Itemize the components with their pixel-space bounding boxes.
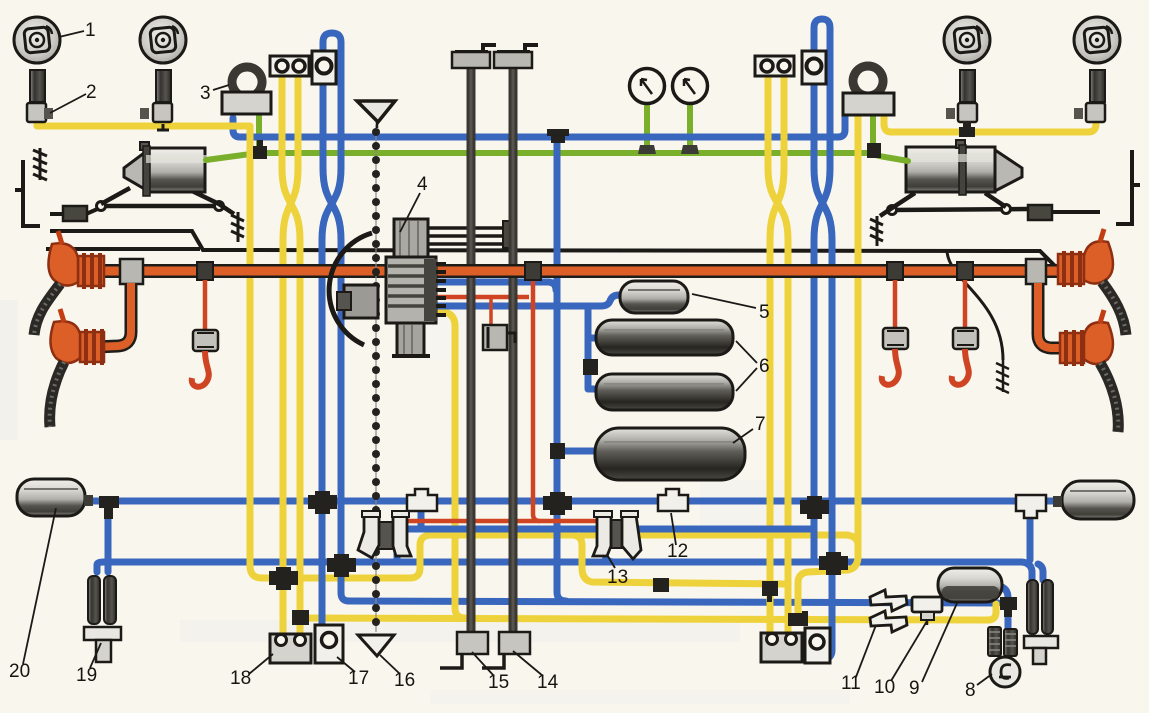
rod to shut-off valve 15 — [467, 58, 476, 634]
reservoir 6 lower — [596, 374, 733, 410]
red drop with hook left (trailer control hose) — [192, 280, 218, 387]
pointer 2 — [50, 94, 86, 113]
svg-text:16: 16 — [394, 670, 415, 691]
red drop with hook right 2 — [952, 280, 978, 385]
svg-text:14: 14 — [537, 672, 559, 693]
pipe yellow loop around regulator 13 — [582, 532, 848, 539]
pipe blue reservoir9 elbow and drop to coupling 8 — [999, 586, 1008, 629]
svg-text:10: 10 — [874, 677, 895, 698]
reservoir 20 left — [17, 479, 85, 516]
flag fitting top of rod 14 — [497, 45, 538, 52]
compressor right mounting bar — [880, 193, 1028, 216]
svg-text:11: 11 — [841, 673, 861, 694]
pipe blue bottom service line y601 — [349, 601, 998, 603]
pointer 17 — [337, 657, 355, 672]
reservoir 20 right — [1062, 481, 1134, 519]
pipe blue relay valve A stub — [418, 511, 425, 527]
pipe blue right block drop to switch 17r — [814, 83, 832, 659]
reservoir 9 — [938, 568, 1002, 602]
brake force regulator 13 — [593, 511, 641, 559]
pointer 6 — [736, 341, 757, 391]
pipe blue hand-valve crossover (dashed look) — [233, 116, 845, 137]
pipe blue inverted-U right — [814, 19, 830, 560]
collar black on res6 feed — [583, 359, 598, 375]
coupling head assembly upper right — [1026, 229, 1126, 335]
tee black on blue at 1008/604 — [1000, 597, 1017, 617]
pointer 9 — [922, 601, 958, 682]
hatch ground right compressor — [870, 216, 883, 246]
svg-text:13: 13 — [607, 567, 628, 588]
svg-text:9: 9 — [909, 678, 920, 699]
pointer 12 — [671, 513, 676, 545]
air dryer / compressor right — [906, 140, 1022, 195]
pipe blue drop from tee to secondary line right — [1027, 516, 1034, 560]
hand brake valve 3 right — [843, 66, 894, 115]
pressure switch block 18 right — [761, 633, 802, 662]
dangling wire to ground right — [947, 250, 1003, 360]
pointer 10 — [891, 621, 927, 681]
pipe yellow front-axle drop with loop to valve A — [250, 127, 784, 584]
pipe green gauge stem left — [644, 101, 650, 150]
pipe blue brake valve upper port to main drop — [437, 282, 556, 290]
coupling head assembly lower left — [50, 283, 131, 427]
svg-text:1: 1 — [85, 20, 96, 41]
pressure switch block 18 left — [270, 634, 311, 663]
coupling head assembly upper left — [34, 231, 143, 335]
compressor left mounting bar — [97, 188, 235, 214]
pipe red stub to small valve — [489, 299, 493, 325]
pointer 20 — [23, 508, 56, 664]
pipe yellow right block strand 2 (crossover) — [770, 75, 784, 638]
air dryer / compressor left — [124, 142, 207, 196]
tee black on green at 260 — [253, 140, 267, 159]
switch 17 left — [315, 625, 343, 663]
pointer 4 — [400, 193, 420, 232]
pipe blue inverted-U left — [322, 33, 341, 661]
pipe green gauge stem right — [687, 101, 693, 150]
pointer 19 — [90, 643, 101, 668]
brake chamber rear-right A — [944, 17, 990, 122]
tee black on yellow right header — [959, 121, 975, 137]
pipe yellow stub chamber fitting right — [964, 121, 971, 131]
frame anchor left post — [15, 160, 40, 226]
control block 2-port left — [270, 56, 309, 76]
frame anchor left spring — [33, 148, 47, 180]
flag fitting top of rod 15 — [455, 45, 496, 52]
pipe yellow block-A strand 1 (crossover) — [282, 75, 300, 638]
switch 17 right — [805, 628, 830, 663]
pointer 1 — [59, 31, 84, 37]
valve 4 left port box — [344, 285, 378, 318]
brake chamber 1 front-left A — [14, 17, 60, 122]
pointer 11 — [856, 625, 876, 677]
pipe red vertical from orange junction to park line — [533, 279, 540, 521]
pipe yellow block-A strand 2 (crossover) — [283, 75, 298, 638]
reservoir 7 — [595, 428, 745, 480]
shut-off valve 15 box — [440, 632, 488, 668]
intake funnel symbol — [357, 101, 395, 128]
reservoir 6 upper — [596, 320, 733, 355]
pipe yellow bottom main line y618 — [300, 604, 996, 620]
svg-text:5: 5 — [759, 302, 770, 323]
pipe blue main reservoir line y503 — [84, 498, 1058, 505]
pointer 14 — [513, 651, 543, 676]
shut-off cock 11 lower (yellow line) — [870, 611, 907, 632]
shut-off cock 11 upper (blue line) — [870, 590, 907, 611]
mushroom fitting on blue hand line — [547, 129, 569, 143]
coupling head assembly lower right — [1038, 283, 1118, 432]
pipe blue center main drop (from hand line to bottom) — [557, 139, 566, 601]
red drop with hook right 1 — [882, 280, 908, 385]
pressure gauge left — [630, 69, 665, 155]
reservoir 9 dark band — [942, 586, 999, 599]
pointer 16 — [380, 655, 400, 674]
pipe green main regulator line — [206, 153, 908, 161]
tee black on yellow main at 795/620 — [788, 611, 808, 626]
tee black on res7 line — [550, 443, 565, 459]
pointer 18 — [249, 654, 273, 674]
pipe green stub valve3 right — [870, 113, 876, 153]
relay valve A (unlabelled) — [358, 511, 411, 558]
pipe blue regulator13 bottom stub — [605, 553, 614, 562]
pressure gauge right — [673, 69, 708, 155]
pointer 15 — [472, 652, 494, 676]
pointer 3 — [213, 85, 229, 90]
control block 1-port left — [312, 51, 336, 84]
drain valve 16 — [358, 635, 394, 656]
reservoir 5 (condensation) — [620, 281, 688, 313]
svg-text:19: 19 — [76, 665, 97, 686]
svg-text:18: 18 — [230, 668, 251, 689]
pipe yellow front chambers header left — [37, 114, 250, 126]
linkage rods from valve4 to shut-off rod — [428, 228, 507, 244]
hand brake valve 3 left — [222, 67, 271, 114]
pointer 7 — [733, 429, 753, 443]
chassis frame line upper — [50, 231, 1057, 268]
compressor left link box — [50, 206, 102, 221]
tee white 12 on main blue — [658, 489, 688, 511]
tee black on res20 line — [99, 496, 119, 519]
pipe yellow rear chambers header right — [884, 112, 1096, 132]
svg-text:3: 3 — [200, 83, 211, 104]
brake chamber rear-right B — [1074, 17, 1120, 122]
svg-text:8: 8 — [965, 680, 976, 701]
pipe blue reservoir20 T drop to energy accumulators 19 — [105, 514, 112, 572]
collar fitting on orange at 205 — [197, 262, 213, 280]
energy accumulator pair 19 right — [1024, 580, 1058, 664]
collar fitting on orange at 965 — [957, 262, 973, 280]
pipe yellow right block strand 1 (crossover) — [768, 75, 788, 638]
pipe yellow loop merge arc — [846, 535, 858, 545]
tee black on yellow main start at 300/617 — [292, 610, 309, 625]
svg-text:20: 20 — [9, 661, 30, 682]
hatch ground under left compressor — [231, 212, 244, 242]
chassis frame stub left lower — [46, 247, 200, 251]
energy accumulator pair 19 left — [84, 576, 121, 662]
svg-text:2: 2 — [86, 82, 97, 103]
brake chamber 1 front-left B — [140, 17, 186, 130]
collar fitting on orange at 895 — [887, 262, 903, 280]
single protection valve 10 — [912, 597, 942, 625]
tee black on green at 874 — [867, 143, 881, 158]
rod to shut-off valve 14 — [509, 58, 518, 634]
dotted drain line from funnel to drain valve 16 — [375, 125, 377, 632]
svg-text:7: 7 — [755, 414, 766, 435]
op pedal arc of brake valve 4 — [329, 233, 372, 345]
compressor right link box — [1028, 205, 1100, 220]
pipe blue block-B drop left — [323, 83, 349, 601]
tee black on yellow arm at 660/586 — [653, 578, 669, 592]
pipe yellow from brake valve4 to bottom main — [437, 311, 465, 618]
pipe blue secondary line y562 — [97, 562, 1043, 580]
collar fitting on orange at 518 — [525, 262, 541, 280]
pointer 13 — [607, 555, 615, 568]
pipe yellow right hand-valve drop with chicane — [798, 114, 858, 618]
pointer 5 — [692, 294, 756, 308]
pipe red horizontal to regulator 13 — [405, 519, 599, 524]
svg-text:17: 17 — [348, 668, 369, 689]
pipe red from valve4 right — [437, 295, 529, 300]
shut-off valve 14 box — [482, 632, 530, 668]
pointer 8 — [977, 674, 992, 685]
svg-text:6: 6 — [759, 356, 770, 377]
valve 4 right ports — [436, 264, 446, 315]
cross black at 341/565 — [327, 554, 356, 577]
pipe orange main trailer supply line (black edged) — [140, 264, 1030, 278]
tee black on yellow at 770/588 — [762, 581, 778, 602]
pipe green stub valve3 left — [256, 112, 262, 152]
pipe blue between relay valves y529 — [397, 529, 812, 560]
svg-text:15: 15 — [488, 672, 509, 693]
pipe blue reservoir7 feed — [560, 448, 599, 455]
control block 2-port right — [755, 56, 794, 76]
pipe blue reservoir6 feed — [588, 308, 600, 389]
right frame anchor post — [1116, 150, 1140, 224]
cross black at 833/563 — [819, 552, 848, 575]
tee white on main blue at valve A — [407, 489, 437, 511]
pipe blue brake valve lower port to condensation reservoir 5 — [437, 295, 622, 306]
tee white before reservoir 20r — [1016, 495, 1046, 518]
brake valve 4 body — [394, 219, 428, 259]
small protection valve under 4 — [483, 325, 507, 350]
cross black on yellow at 283/583 — [269, 567, 298, 590]
svg-text:4: 4 — [417, 174, 428, 195]
cross black at 322/502 — [308, 491, 337, 514]
cross black at 557/503 — [543, 492, 572, 515]
svg-text:12: 12 — [667, 541, 688, 562]
cross black at 814/507 — [800, 496, 829, 519]
connection head 8 with hoses — [988, 627, 1020, 687]
control block 1-port right — [802, 51, 826, 84]
